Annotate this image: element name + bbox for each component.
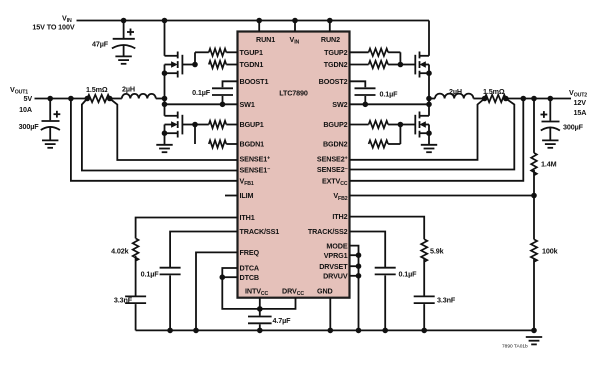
- node : gate connector dot M1: [192, 62, 198, 68]
- resistor : TGDN2 gate resistor: [350, 61, 401, 68]
- capacitor 47uF input bypass: [92, 21, 135, 57]
- wire : SENSE2+ kelvin from resistor left terminal: [350, 99, 485, 160]
- svg-text:47µF: 47µF: [92, 40, 109, 49]
- svg-text:4.7µF: 4.7µF: [273, 316, 292, 325]
- wire : DRVUV stub: [350, 275, 359, 277]
- svg-text:0.1µF: 0.1µF: [399, 270, 418, 279]
- svg-text:FREQ: FREQ: [240, 248, 260, 257]
- svg-text:ILIM: ILIM: [240, 191, 254, 200]
- resistor 1.4M feedback upper: [531, 99, 556, 196]
- svg-text:0.1µF: 0.1µF: [380, 90, 399, 99]
- svg-text:5.9k: 5.9k: [430, 247, 444, 256]
- wire : RUN1 pin to rail: [258, 21, 260, 32]
- wire : ITH2 compensation line: [350, 217, 425, 240]
- svg-text:BGUP1: BGUP1: [240, 120, 264, 129]
- svg-text:TGUP1: TGUP1: [240, 48, 263, 57]
- svg-text:ITH1: ITH1: [240, 213, 255, 222]
- node : DTCA/DTCB tie: [220, 274, 226, 280]
- wire : TRACK/SS1 line: [170, 232, 237, 268]
- wire : ITH1 compensation line: [136, 218, 238, 239]
- wire : M2B source to ground: [428, 133, 430, 145]
- svg-text:VPRG1: VPRG1: [324, 251, 348, 260]
- svg-text:TGUP2: TGUP2: [324, 48, 347, 57]
- capacitor 4.7uF INTVCC: [248, 316, 291, 330]
- wire : M2 source down through SW2 node to M2B drain: [428, 73, 430, 116]
- wire : BGDN2 gate resistor connector: [399, 125, 401, 145]
- capacitor 0.1uF soft-start ch2: [375, 268, 417, 331]
- wire : EXTVCC from VOUT2 rail: [350, 99, 524, 181]
- inductor 2uH (ch1): [122, 85, 156, 99]
- svg-text:3.3nF: 3.3nF: [437, 296, 456, 305]
- svg-text:TRACK/SS2: TRACK/SS2: [308, 227, 348, 236]
- wire : TRACK/SS2 line: [350, 232, 386, 268]
- resistor : TGUP2 gate resistor: [350, 49, 401, 56]
- resistor 4.02k ITH1: [111, 238, 138, 296]
- wire : GND pin down: [329, 298, 331, 331]
- transistor M1 : top NMOS ch1: [165, 52, 183, 78]
- svg-text:BOOST1: BOOST1: [240, 77, 269, 86]
- node : VFB2 divider tap: [531, 193, 537, 199]
- svg-text:100k: 100k: [542, 247, 558, 256]
- wire : SW1 pin line: [165, 103, 238, 105]
- wire : VIN top rail: [77, 20, 430, 22]
- svg-text:300µF: 300µF: [19, 122, 40, 131]
- transistor M2 : top NMOS ch2: [415, 52, 429, 78]
- svg-text:10A: 10A: [19, 105, 32, 114]
- wire : BGDN1 gate resistor connector: [194, 125, 196, 145]
- node : M1 source dot: [162, 70, 168, 76]
- svg-text:RUN2: RUN2: [321, 35, 340, 44]
- wire : inductor to sense resistor ch2: [473, 98, 484, 100]
- svg-text:7890 TA01b: 7890 TA01b: [502, 344, 528, 350]
- svg-text:1.5mΩ: 1.5mΩ: [86, 85, 108, 94]
- wire : DRVCC pin to INTVCC: [260, 298, 296, 309]
- svg-text:0.1µF: 0.1µF: [192, 88, 211, 97]
- node : M1B source dot: [162, 130, 168, 136]
- resistor : TGDN1 gate resistor: [209, 61, 238, 68]
- svg-text:BGUP2: BGUP2: [323, 120, 347, 129]
- svg-text:ITH2: ITH2: [332, 212, 347, 221]
- node : VOUT2 rail junctions: [482, 96, 553, 102]
- node : IC pin labels top and bottom: [245, 35, 333, 297]
- svg-text:3.3nF: 3.3nF: [114, 296, 133, 305]
- capacitor 300uF output (ch1): [19, 99, 61, 141]
- wire : ILIM stub: [225, 195, 238, 197]
- resistor : BGDN2 gate resistor: [369, 140, 401, 147]
- wire : M1 source down through SW node to M1B drain: [164, 73, 166, 116]
- svg-text:DTCB: DTCB: [240, 273, 259, 282]
- svg-text:LTC7890: LTC7890: [279, 89, 308, 98]
- capacitor 0.1uF soft-start ch1: [141, 268, 181, 331]
- node VIN: [32, 14, 74, 32]
- capacitor 300uF output (ch2): [541, 99, 584, 141]
- wire : FREQ line down: [196, 252, 238, 330]
- wire : TGUP2 gate resistor connector: [399, 52, 401, 64]
- node : VOUT1 rail junctions: [47, 96, 112, 102]
- wire : M2 gate lead: [400, 64, 415, 66]
- svg-text:SW1: SW1: [240, 100, 255, 109]
- node : gate connector dot M2B: [398, 122, 404, 128]
- node : SW2 junctions: [363, 96, 432, 107]
- resistor : BGDN1 gate resistor: [209, 140, 238, 147]
- svg-text:SENSE2+: SENSE2+: [317, 154, 348, 163]
- svg-text:VOUT2: VOUT2: [569, 88, 587, 99]
- op-amp U1 : LTC7890 controller IC body: [238, 32, 350, 298]
- node : IC pin labels right column: [308, 35, 348, 281]
- wire : TGUP1 gate resistor connector: [194, 52, 196, 64]
- capacitor 3.3nF ITH2: [414, 296, 456, 331]
- wire : DTCB stub: [222, 276, 237, 278]
- svg-text:0.1µF: 0.1µF: [141, 270, 160, 279]
- wire : DTCA/DTCB tie to INTVCC: [222, 268, 259, 309]
- svg-text:2µH: 2µH: [122, 85, 135, 94]
- resistor : BGUP1 gate resistor: [195, 121, 238, 128]
- resistor : TGUP1 gate resistor: [195, 49, 238, 56]
- wire : VFB1 sense from VOUT1 rail: [71, 99, 238, 181]
- svg-text:SENSE2−: SENSE2−: [317, 165, 348, 174]
- svg-text:BOOST2: BOOST2: [319, 77, 348, 86]
- svg-text:2µH: 2µH: [449, 87, 462, 96]
- resistor : BGUP2 gate resistor: [350, 121, 401, 128]
- wire : SW2 pin line: [350, 103, 430, 105]
- inductor 2uH (ch2): [435, 87, 473, 99]
- capacitor 3.3nF ITH1: [114, 296, 146, 331]
- svg-text:BGDN2: BGDN2: [323, 140, 348, 149]
- node : SW1 junctions: [162, 96, 226, 107]
- svg-text:DRVSET: DRVSET: [319, 262, 348, 271]
- wire : MODE line down: [350, 246, 359, 331]
- capacitor 0.1uF boost ch1: [192, 81, 237, 104]
- transistor M2B : bottom NMOS ch2: [415, 112, 429, 138]
- svg-text:15A: 15A: [574, 108, 587, 117]
- svg-text:TRACK/SS1: TRACK/SS1: [240, 227, 280, 236]
- ground : M1B source: [156, 145, 172, 152]
- svg-text:SW2: SW2: [332, 100, 347, 109]
- resistor 100k feedback lower: [531, 196, 558, 331]
- svg-text:15V TO 100V: 15V TO 100V: [32, 23, 74, 32]
- wire : DRVSET stub: [350, 265, 359, 267]
- svg-text:DRVUV: DRVUV: [323, 272, 348, 281]
- svg-text:4.02k: 4.02k: [111, 247, 129, 256]
- svg-text:1.4M: 1.4M: [541, 160, 557, 169]
- svg-text:1.5mΩ: 1.5mΩ: [483, 87, 505, 96]
- wire : M1B source to ground: [164, 133, 166, 145]
- wire : SENSE1- kelvin from resistor left terminal: [82, 99, 238, 171]
- node : M2 source dot: [426, 70, 432, 76]
- capacitor 0.1uF boost ch2: [350, 81, 399, 104]
- wire : VOUT1 rail: [35, 98, 88, 100]
- node : junction dots on VIN rail: [121, 18, 333, 24]
- ground : under 300uF ch2: [542, 140, 558, 147]
- wire : bottom ground rail: [136, 329, 534, 331]
- node : M2B source dot: [426, 130, 432, 136]
- wire : VIN pin to rail: [294, 21, 296, 32]
- svg-text:300µF: 300µF: [563, 123, 584, 132]
- wire : rail drop to M2 drain: [428, 21, 430, 56]
- wire : RUN2 pin to rail: [329, 21, 331, 32]
- wire : INTVCC pin down: [259, 298, 261, 316]
- node : bottom rail junctions: [167, 328, 537, 334]
- resistor 1.5mOhm sense (ch1): [86, 85, 110, 102]
- node : INTVCC junction: [257, 306, 263, 312]
- wire : VOUT2 rail: [506, 98, 571, 100]
- ground : bottom rail: [526, 337, 542, 344]
- wire : between sense resistor and inductor (ch1): [110, 98, 122, 100]
- node : gate connector dot M1B: [192, 122, 198, 128]
- resistor 5.9k ITH2: [421, 239, 443, 296]
- wire : SENSE1+ kelvin from resistor right terminal: [110, 99, 238, 161]
- wire : inductor to SW1 node: [156, 98, 165, 100]
- wire : M2B gate lead: [400, 124, 415, 126]
- ground : under 47uF: [115, 56, 131, 63]
- svg-text:GND: GND: [317, 287, 333, 296]
- node : gate connector dot M2: [398, 62, 404, 68]
- svg-text:RUN1: RUN1: [256, 35, 275, 44]
- wire : VPRG1 stub: [350, 254, 359, 256]
- svg-text:DTCA: DTCA: [240, 264, 259, 273]
- wire : SENSE2- kelvin from resistor right terminal: [350, 99, 515, 170]
- svg-text:TGDN1: TGDN1: [240, 60, 264, 69]
- svg-text:SENSE1+: SENSE1+: [240, 155, 271, 164]
- wire : M1 gate lead: [182, 64, 195, 66]
- svg-text:MODE: MODE: [326, 241, 347, 250]
- svg-text:TGDN2: TGDN2: [324, 60, 348, 69]
- node VOUT2: [569, 88, 587, 117]
- wire : VFB2 line: [350, 195, 535, 197]
- svg-text:SENSE1−: SENSE1−: [240, 165, 271, 174]
- resistor 1.5mOhm sense (ch2): [483, 87, 506, 102]
- node VOUT1: [10, 85, 32, 114]
- wire : SW2 node to inductor ch2: [429, 98, 435, 100]
- node : IC pin labels left column: [240, 35, 280, 282]
- node : MODE/VPRG1/DRVSET/DRVUV ties: [356, 252, 362, 278]
- svg-text:BGDN1: BGDN1: [240, 140, 265, 149]
- wire : rail drop to M1 drain: [164, 21, 166, 56]
- wire : M1B gate lead: [182, 124, 195, 126]
- transistor M1B : bottom NMOS ch1: [165, 112, 183, 138]
- ground : M2B source: [421, 145, 437, 152]
- svg-text:12V: 12V: [574, 98, 587, 107]
- ground : under 300uF ch1: [42, 140, 58, 147]
- svg-text:5V: 5V: [23, 94, 32, 103]
